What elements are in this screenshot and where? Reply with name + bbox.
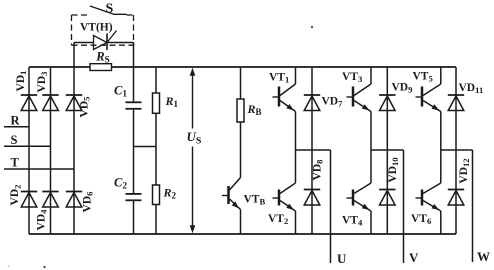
wire VT6 collector from midpoint	[440, 150, 442, 183]
wire top DC bus	[29, 66, 456, 68]
wire braking column middle	[240, 122, 242, 178]
node US voltage arrow	[190, 68, 196, 233]
dashed box around VT(H)	[72, 14, 90, 16]
speck artifact top	[311, 26, 313, 28]
wire output U	[330, 150, 332, 263]
wire R column upper	[155, 67, 157, 93]
wire capacitor column upper	[133, 67, 135, 102]
wire rectifier leg 1 vertical	[28, 67, 30, 234]
transistor VT4	[347, 183, 372, 211]
thyristor VT(H)	[74, 31, 134, 51]
diode VD1	[21, 95, 37, 111]
capacitor C2	[126, 194, 142, 200]
diode VD3	[42, 95, 58, 111]
svg-text:U: U	[337, 251, 347, 266]
wire VD7 column	[311, 67, 313, 234]
wire VT3 collector from bus	[370, 67, 372, 84]
wire bypass right vertical	[133, 43, 135, 68]
diode VD6	[66, 192, 82, 208]
speck artifact left	[8, 265, 10, 267]
diode VD8	[304, 190, 320, 206]
wire bottom DC bus	[29, 233, 456, 235]
transistor VT6	[416, 183, 441, 211]
wire braking column upper	[240, 67, 242, 99]
resistor RS	[90, 64, 112, 71]
wire VT2 collector from midpoint	[295, 150, 297, 183]
wire cap-resistor midpoint link	[134, 146, 157, 148]
wire VT5 emitter to midpoint	[440, 112, 442, 151]
diode VD4	[42, 192, 58, 208]
wire VT2 emitter to bus	[295, 211, 297, 234]
diode VD12	[448, 190, 464, 206]
wire midpoint node U phase	[296, 149, 331, 151]
wire VD9 column	[386, 67, 388, 234]
diode VD7	[304, 95, 320, 111]
wire VT5 collector from bus	[440, 67, 442, 84]
transistor VT2	[273, 183, 296, 211]
transistor VT3	[347, 84, 372, 112]
wire braking emitter to bus	[240, 210, 242, 235]
svg-text:T: T	[11, 156, 20, 170]
wire VT4 collector from midpoint	[370, 150, 372, 183]
wire bypass left vertical	[73, 43, 75, 68]
svg-text:VT(H): VT(H)	[80, 22, 113, 34]
wire T input	[4, 168, 74, 170]
capacitor C1	[126, 102, 142, 109]
wire rectifier leg 3 vertical	[73, 67, 75, 234]
wire VT6 emitter to bus	[440, 211, 442, 234]
wire VT1 emitter to midpoint	[295, 112, 297, 151]
wire VT1 collector from bus	[295, 67, 297, 84]
wire VD11 column	[455, 67, 457, 234]
resistor RB	[237, 99, 244, 122]
diode VD9	[379, 95, 395, 111]
wire midpoint node V phase	[371, 149, 404, 151]
diode VD11	[448, 95, 464, 111]
wire R column lower	[155, 205, 157, 235]
transistor VT1	[273, 84, 296, 112]
wire capacitor column lower	[133, 200, 135, 234]
wire midpoint node W phase	[441, 149, 473, 151]
diode VD10	[379, 190, 395, 206]
switch S	[90, 6, 127, 14]
transistor VTB	[222, 178, 241, 210]
wire capacitor column middle	[133, 109, 135, 194]
svg-text:S: S	[106, 2, 114, 17]
wire R column middle	[155, 113, 157, 185]
svg-text:V: V	[409, 250, 419, 265]
svg-text:W: W	[477, 249, 490, 264]
wire VT3 emitter to midpoint	[370, 112, 372, 151]
wire output W	[472, 150, 474, 262]
speck artifact right	[43, 266, 45, 268]
wire output V	[403, 150, 405, 263]
wire R input	[4, 126, 29, 128]
diode VD5	[66, 95, 82, 111]
diode VD2	[21, 192, 37, 208]
svg-text:R: R	[11, 114, 21, 128]
resistor R1	[153, 93, 160, 113]
wire VT4 emitter to bus	[370, 211, 372, 234]
resistor R2	[153, 185, 160, 205]
wire S input	[4, 145, 51, 147]
svg-text:S: S	[11, 133, 18, 147]
wire rectifier leg 2 vertical	[50, 67, 52, 234]
transistor VT5	[416, 84, 441, 112]
